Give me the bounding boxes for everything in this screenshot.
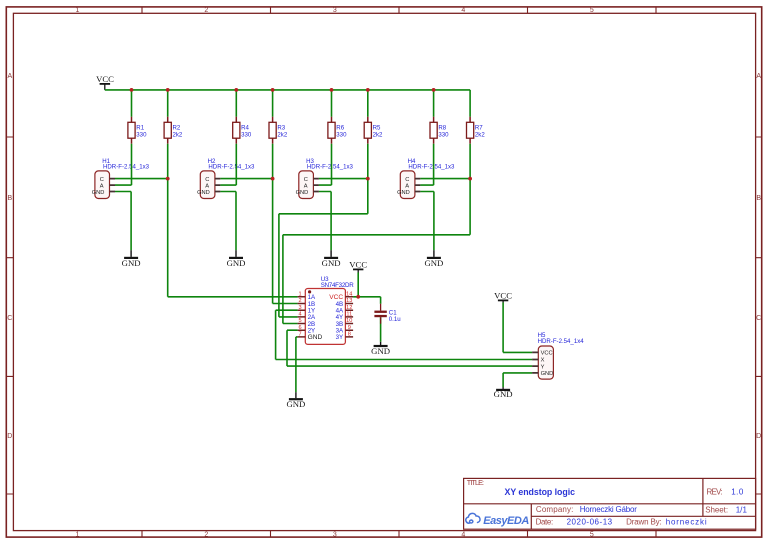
svg-text:12: 12 [346, 305, 352, 311]
wire H4 A to R8 [420, 144, 433, 185]
svg-text:GND: GND [371, 346, 390, 356]
wire U3 VCC pin14 to C1 [353, 296, 381, 298]
svg-text:6: 6 [298, 325, 301, 331]
svg-text:TITLE:: TITLE: [467, 478, 484, 487]
wire H2 A to R4 [220, 144, 236, 185]
svg-text:1.0: 1.0 [731, 488, 744, 497]
svg-text:C: C [304, 177, 308, 183]
header H5 [532, 332, 584, 379]
svg-text:Y: Y [541, 364, 545, 370]
U3 pin1 marker [308, 290, 311, 293]
VCC power flag above U3 [349, 259, 367, 272]
svg-text:A: A [100, 183, 104, 189]
svg-text:C: C [7, 315, 12, 322]
GND symbol below H1 [122, 250, 141, 268]
svg-text:330: 330 [241, 131, 252, 138]
wire H2 C to R3 node [220, 178, 272, 180]
svg-text:horneczki: horneczki [666, 518, 707, 527]
svg-text:EasyEDA: EasyEDA [483, 515, 529, 527]
capacitor C1 [374, 304, 400, 324]
GND symbol below U3 pin7 [286, 392, 305, 409]
resistor R1 [128, 117, 147, 144]
resistor R3 [269, 117, 288, 144]
signal wires (green) [115, 144, 532, 393]
wire net X : U3 pin3 to H5 pin X [276, 310, 532, 359]
svg-text:GND: GND [197, 190, 210, 196]
svg-text:C: C [756, 315, 761, 322]
U3 pin stubs [298, 297, 306, 337]
svg-text:HDR-F-2.54_1x4: HDR-F-2.54_1x4 [538, 338, 585, 345]
VCC power flag (top-left) [96, 74, 114, 90]
resistor R6 [328, 117, 347, 144]
svg-text:X: X [541, 358, 545, 364]
wires: resistor top leads (green) [132, 90, 471, 117]
svg-text:C: C [100, 177, 104, 183]
svg-text:XY endstop logic: XY endstop logic [505, 487, 576, 497]
svg-text:A: A [756, 73, 761, 80]
svg-text:14: 14 [346, 291, 352, 297]
svg-text:VCC: VCC [541, 351, 553, 357]
svg-text:GND: GND [541, 371, 554, 377]
svg-text:5: 5 [298, 318, 301, 324]
GND symbol below H4 [424, 250, 443, 268]
svg-text:7: 7 [298, 332, 301, 338]
svg-text:D: D [756, 433, 761, 440]
svg-text:2k2: 2k2 [277, 131, 287, 138]
GND symbol below H3 [322, 250, 341, 268]
wire H3 C to R5 node [319, 178, 368, 180]
wire net Y1 : R5 node to U3 pin4 [279, 144, 368, 317]
svg-text:8: 8 [348, 332, 351, 338]
svg-text:3: 3 [333, 531, 337, 538]
svg-text:2: 2 [204, 531, 208, 538]
svg-text:GND: GND [286, 399, 305, 409]
EasyEDA logo [466, 513, 480, 523]
wire H1 C to R2 node [115, 178, 168, 180]
VCC power flag above H5 [494, 290, 512, 302]
svg-text:GND: GND [494, 389, 513, 399]
svg-text:5: 5 [590, 7, 594, 14]
svg-text:GND: GND [296, 190, 309, 196]
GND symbol below H5 [494, 387, 513, 399]
header H4 [397, 158, 455, 199]
svg-text:C: C [405, 177, 409, 183]
svg-text:GND: GND [308, 334, 323, 341]
wire H3 GND down [319, 192, 331, 251]
wire net X1 : R2 node to U3 pin1 [168, 144, 298, 297]
svg-text:11: 11 [346, 312, 352, 318]
svg-text:REV:: REV: [707, 488, 723, 497]
op IC U3 SN74F32DR [298, 276, 355, 345]
svg-text:2: 2 [298, 298, 301, 304]
wire H2 GND down [220, 192, 236, 251]
wire VCC flag to U3 pin14 [357, 273, 359, 297]
svg-text:5: 5 [590, 531, 594, 538]
junction node dots [130, 88, 472, 299]
svg-text:GND: GND [322, 258, 341, 268]
svg-text:GND: GND [92, 190, 105, 196]
svg-text:2: 2 [204, 7, 208, 14]
resistor R5 [364, 117, 383, 144]
svg-text:4: 4 [298, 312, 301, 318]
U3 left pin numbers 1-7 [298, 291, 301, 337]
svg-text:4: 4 [461, 7, 465, 14]
svg-text:3: 3 [298, 305, 301, 311]
svg-text:1: 1 [76, 7, 80, 14]
svg-text:10: 10 [346, 318, 352, 324]
svg-text:2k2: 2k2 [373, 131, 383, 138]
wire U3 GND pin7 down [296, 337, 298, 392]
svg-text:GND: GND [424, 258, 443, 268]
wire net X2 : R3 node to U3 pin2 [273, 144, 298, 304]
wire H4 GND down [420, 192, 434, 251]
svg-text:VCC: VCC [494, 290, 512, 300]
resistor R7 [467, 117, 486, 144]
svg-text:4: 4 [461, 531, 465, 538]
wire: VCC bus [105, 89, 470, 91]
header H3 [296, 158, 354, 199]
U3 right pin numbers 14-8 [346, 291, 352, 337]
svg-text:Date:: Date: [536, 518, 554, 527]
svg-text:B: B [756, 195, 761, 202]
svg-text:Company:: Company: [536, 505, 574, 514]
header H1 [92, 158, 150, 199]
svg-text:GND: GND [227, 258, 246, 268]
svg-text:Horneczki Gábor: Horneczki Gábor [580, 505, 638, 514]
wire H1 A to R1 [115, 144, 132, 185]
GND symbol below H2 [227, 250, 246, 268]
wire C1 bottom to GND [380, 317, 382, 342]
svg-text:330: 330 [136, 131, 147, 138]
wire C1 top [380, 297, 382, 304]
svg-text:Drawn By:: Drawn By: [626, 518, 662, 527]
svg-text:D: D [7, 433, 12, 440]
wire H5 GND down [503, 373, 532, 387]
title block [464, 478, 756, 529]
svg-text:3: 3 [333, 7, 337, 14]
svg-text:2k2: 2k2 [173, 131, 183, 138]
wire H4 C to R7 node [420, 178, 470, 180]
svg-text:GND: GND [397, 190, 410, 196]
svg-text:HDR-F-2.54_1x3: HDR-F-2.54_1x3 [208, 164, 255, 171]
wire VCC flag to H5 VCC [503, 303, 532, 353]
svg-text:GND: GND [122, 258, 141, 268]
svg-text:9: 9 [348, 325, 351, 331]
wire net Y2 : R7 node to U3 pin5 [283, 144, 470, 324]
wire H3 A to R6 [319, 144, 332, 185]
svg-text:1: 1 [298, 291, 301, 297]
U3 left pin names [308, 294, 316, 334]
svg-text:3Y: 3Y [336, 334, 344, 341]
resistor R2 [164, 117, 183, 144]
resistor R8 [430, 117, 449, 144]
svg-text:1: 1 [76, 531, 80, 538]
svg-text:0.1u: 0.1u [389, 316, 401, 323]
wire net Y : U3 pin6 to H5 pin Y [287, 330, 532, 366]
svg-text:A: A [304, 183, 308, 189]
svg-text:A: A [205, 183, 209, 189]
svg-text:13: 13 [346, 298, 352, 304]
header H2 [197, 158, 255, 199]
svg-text:C: C [205, 177, 209, 183]
GND symbol below C1 [371, 342, 390, 356]
svg-text:HDR-F-2.54_1x3: HDR-F-2.54_1x3 [408, 164, 455, 171]
svg-text:A: A [405, 183, 409, 189]
svg-text:HDR-F-2.54_1x3: HDR-F-2.54_1x3 [307, 164, 354, 171]
svg-text:330: 330 [438, 131, 449, 138]
svg-text:330: 330 [336, 131, 347, 138]
wire H1 GND down [115, 192, 131, 251]
svg-text:VCC: VCC [349, 259, 367, 269]
svg-text:B: B [7, 195, 12, 202]
svg-text:HDR-F-2.54_1x3: HDR-F-2.54_1x3 [103, 164, 150, 171]
svg-text:Sheet:: Sheet: [705, 506, 728, 515]
svg-text:2k2: 2k2 [475, 131, 485, 138]
svg-text:2020-06-13: 2020-06-13 [567, 518, 613, 527]
resistor R4 [233, 117, 252, 144]
svg-text:A: A [7, 73, 12, 80]
svg-text:VCC: VCC [96, 74, 114, 84]
svg-text:1/1: 1/1 [736, 506, 748, 515]
